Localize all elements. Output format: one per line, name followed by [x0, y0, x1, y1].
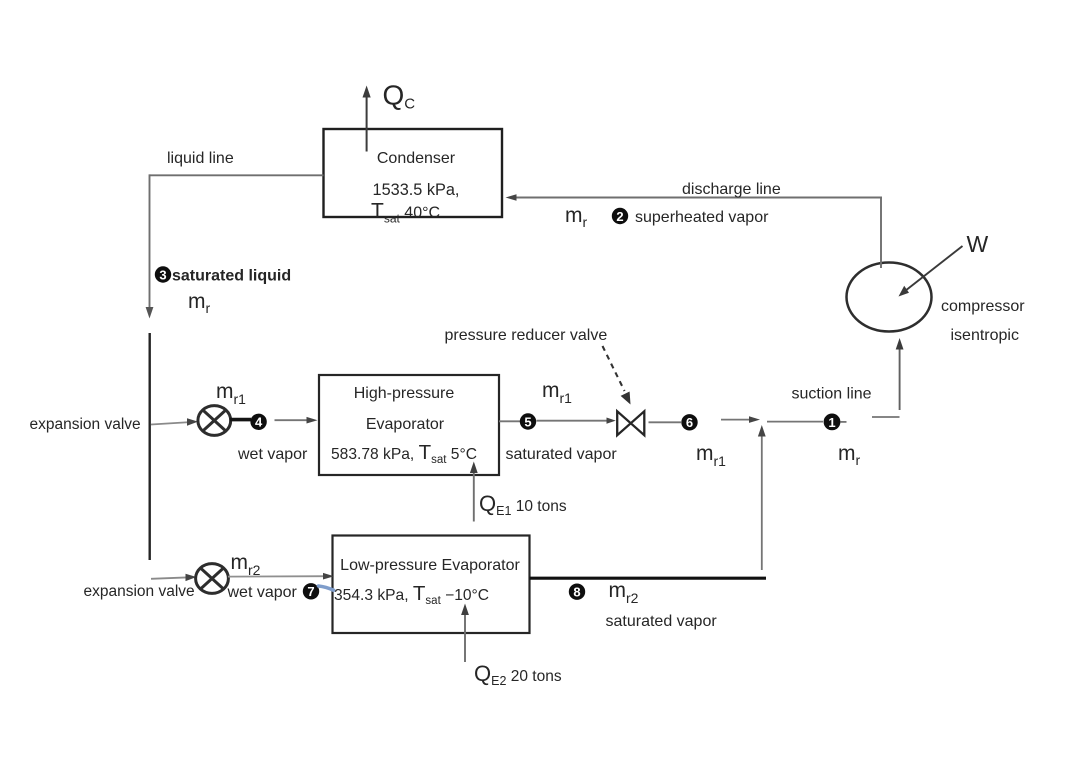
suction vertical wire into compressor — [896, 338, 904, 410]
svg-text:mr2: mr2 — [231, 551, 261, 578]
svg-text:isentropic: isentropic — [951, 327, 1019, 344]
svg-text:mr1: mr1 — [216, 380, 246, 407]
svg-text:4: 4 — [255, 415, 263, 430]
svg-text:mr: mr — [188, 290, 211, 316]
svg-text:compressor: compressor — [941, 298, 1025, 315]
discharge wire (compressor to condenser) — [506, 194, 883, 268]
LP evaporator box — [333, 536, 530, 634]
expansion valve 1 (crossed circle) — [198, 406, 231, 436]
node 3 marker — [155, 266, 171, 282]
svg-text:1533.5 kPa,: 1533.5 kPa, — [373, 181, 460, 199]
svg-text:583.78 kPa, Tsat 5°C: 583.78 kPa, Tsat 5°C — [331, 441, 477, 466]
svg-text:Tsat 40°C: Tsat 40°C — [371, 200, 440, 226]
thick vapor line LP box to riser — [530, 577, 767, 580]
svg-text:saturated vapor: saturated vapor — [606, 613, 718, 630]
svg-text:mr1: mr1 — [542, 379, 572, 406]
stub wire right of node 1 — [841, 421, 847, 423]
node 7 — [303, 583, 319, 599]
svg-text:superheated vapor: superheated vapor — [635, 209, 769, 226]
QE2 heat input arrow — [461, 604, 469, 663]
svg-text:Low-pressure Evaporator: Low-pressure Evaporator — [340, 557, 520, 574]
svg-text:8: 8 — [573, 585, 580, 600]
svg-text:2: 2 — [616, 209, 623, 224]
node 6 — [681, 414, 697, 430]
svg-text:suction line: suction line — [792, 386, 872, 403]
wire into expansion valve 1 — [151, 418, 198, 425]
svg-text:Evaporator: Evaporator — [366, 416, 445, 433]
svg-text:High-pressure: High-pressure — [354, 385, 455, 402]
wire HP box to node 5 — [499, 420, 520, 422]
svg-text:6: 6 — [686, 415, 693, 430]
svg-text:5: 5 — [524, 414, 531, 429]
liquid line wire (horizontal + vertical with down arrow) — [146, 174, 324, 318]
node 1 — [824, 414, 841, 431]
svg-text:expansion valve: expansion valve — [84, 583, 195, 600]
node 2 — [612, 208, 628, 224]
svg-text:saturated vapor: saturated vapor — [506, 446, 618, 463]
svg-text:QC: QC — [383, 80, 416, 113]
svg-text:expansion valve: expansion valve — [30, 416, 141, 433]
wire valve 2 to LP box — [228, 573, 334, 580]
node 5 — [520, 413, 536, 429]
liquid drop wire (dark vertical segment) — [148, 333, 150, 560]
svg-text:QE1 10 tons: QE1 10 tons — [479, 491, 567, 518]
svg-text:354.3 kPa, Tsat −10°C: 354.3 kPa, Tsat −10°C — [334, 582, 489, 607]
svg-text:7: 7 — [307, 584, 314, 599]
condenser box — [324, 129, 503, 217]
svg-text:mr2: mr2 — [609, 579, 639, 606]
wire node 5 to reducer valve — [537, 418, 616, 424]
wire into expansion valve 2 — [151, 574, 197, 581]
node 4 — [250, 414, 266, 430]
dashed pointer arrow to valve — [603, 346, 631, 405]
suction dash wire — [872, 416, 900, 418]
svg-text:saturated liquid: saturated liquid — [172, 268, 291, 285]
svg-text:discharge line: discharge line — [682, 181, 781, 198]
svg-text:3: 3 — [159, 267, 166, 282]
svg-text:QE2 20 tons: QE2 20 tons — [474, 661, 562, 688]
svg-text:pressure reducer valve: pressure reducer valve — [445, 327, 608, 344]
QE1 heat input arrow — [470, 462, 478, 522]
node 8 — [569, 584, 585, 600]
svg-text:1: 1 — [828, 415, 835, 430]
svg-text:wet vapor: wet vapor — [227, 584, 298, 601]
expansion valve 2 (crossed circle) — [196, 564, 229, 594]
wire node 6 to junction with right arrow — [721, 416, 760, 423]
svg-text:Condenser: Condenser — [377, 150, 456, 167]
svg-text:mr: mr — [838, 442, 861, 468]
svg-text:W: W — [967, 231, 989, 257]
svg-text:liquid line: liquid line — [167, 150, 234, 167]
svg-text:wet vapor: wet vapor — [237, 446, 308, 463]
wire valve to node 6 — [649, 421, 682, 423]
wire junction to node 1 — [767, 421, 823, 423]
pressure reducer valve (bowtie) — [617, 411, 644, 435]
wire node 4 to HP evaporator — [275, 417, 318, 424]
compressor — [847, 263, 932, 332]
Qc heat rejection arrow — [363, 86, 371, 152]
blue annotation swoosh at node 7 — [319, 586, 334, 590]
HP evaporator box — [319, 375, 499, 475]
svg-text:mr1: mr1 — [696, 442, 726, 469]
W work input arrow — [899, 246, 963, 297]
riser wire from LP line (up arrow) — [758, 425, 766, 570]
stub wire valve1 to node 4 — [230, 418, 252, 422]
svg-text:mr: mr — [565, 204, 588, 230]
